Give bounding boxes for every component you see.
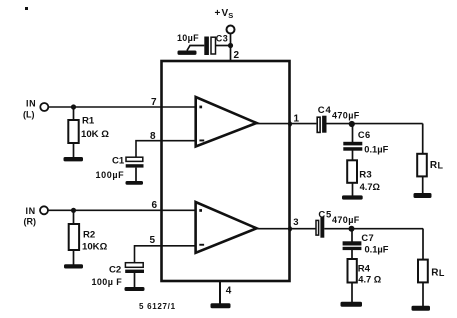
wire C4 to RL (top rail) [327, 123, 423, 125]
wire C1 to ground [135, 168, 137, 182]
ground (RL bottom) [412, 306, 431, 311]
junction blob at pin 3 box edge [288, 226, 292, 231]
capacitor C1 [96, 156, 144, 180]
svg-text:IN: IN [26, 99, 36, 109]
capacitor C4 [317, 105, 360, 133]
ground (C3) [178, 51, 197, 55]
capacitor C2 [92, 263, 145, 288]
svg-text:5: 5 [150, 235, 156, 246]
node junction C6 [349, 121, 355, 127]
ground (R2) [64, 264, 83, 268]
svg-text:10K Ω: 10K Ω [81, 129, 109, 140]
op-amp A2 [196, 202, 257, 253]
svg-text:R2: R2 [83, 229, 95, 240]
wire pin 4 to ground [219, 282, 221, 305]
op-amp A1 [196, 97, 257, 147]
svg-text:R3: R3 [359, 170, 372, 181]
svg-text:C7: C7 [361, 233, 374, 243]
wire +Vs to pin 2 [230, 34, 232, 62]
ground (RL top) [414, 193, 432, 198]
ground (R3) [342, 195, 363, 199]
wire C5 to RL (bottom rail) [324, 228, 423, 230]
node junction at pin 2 [228, 43, 233, 48]
ground (C1) [126, 181, 144, 185]
capacitor C3 [177, 33, 228, 55]
wire output pin 1 to C4 [256, 123, 316, 125]
svg-text:100µ F: 100µ F [92, 277, 123, 287]
svg-text:4.7Ω: 4.7Ω [360, 182, 381, 192]
wire IN(R) to pin 6 [48, 209, 203, 211]
wire pin 5 to C2 [135, 246, 204, 263]
wire C3 to junction [216, 45, 231, 47]
capacitor C7 [343, 233, 389, 255]
svg-text:4: 4 [226, 285, 232, 296]
svg-text:IN: IN [26, 206, 36, 216]
ground (C2) [125, 287, 145, 291]
svg-text:0.1µF: 0.1µF [365, 244, 389, 254]
svg-text:3: 3 [293, 217, 298, 228]
ground (R4) [341, 302, 363, 307]
svg-text:10µF: 10µF [177, 33, 199, 43]
ground (R1) [64, 157, 84, 161]
svg-text:RL: RL [431, 268, 445, 279]
svg-text:470µF: 470µF [332, 111, 360, 121]
wire C2 to ground [134, 273, 136, 288]
node junction C7 [349, 226, 355, 232]
node junction at R1 [71, 104, 76, 109]
load resistor RL (top) [417, 124, 443, 194]
svg-text:6: 6 [152, 200, 158, 211]
wire pin 8 to C1 [136, 141, 203, 158]
svg-text:C5: C5 [318, 209, 332, 220]
svg-text:(R): (R) [24, 217, 37, 227]
svg-text:C1: C1 [112, 156, 125, 167]
wire junction to C7 [351, 229, 353, 242]
capacitor C5 [316, 209, 360, 237]
svg-text:2: 2 [234, 50, 240, 61]
op-amp IC U1 outline [162, 61, 290, 281]
svg-text:7: 7 [151, 97, 157, 108]
svg-text:10KΩ: 10KΩ [82, 242, 108, 253]
resistor R1 [68, 107, 109, 158]
wire IN(L) to pin 7 [48, 106, 203, 108]
input terminal IN (L) [23, 99, 48, 120]
junction blob at pin 1 box edge [288, 121, 292, 126]
svg-text:100µF: 100µF [96, 170, 125, 180]
svg-text:C6: C6 [358, 130, 371, 140]
node junction at R2 [71, 208, 76, 213]
svg-text:C3: C3 [216, 34, 229, 44]
wire output pin 3 to C5 [256, 228, 316, 230]
wire junction to C6 [352, 124, 354, 143]
svg-text:470µF: 470µF [332, 215, 360, 225]
+Vs supply terminal [215, 8, 235, 34]
svg-text:R1: R1 [82, 116, 95, 127]
resistor R3 [347, 150, 380, 196]
wire C3 to ground [187, 46, 204, 51]
ground (pin 4) [211, 303, 231, 308]
svg-text:4.7 Ω: 4.7 Ω [358, 274, 382, 284]
load resistor RL (bottom) [418, 229, 445, 307]
svg-text:0.1µF: 0.1µF [364, 144, 388, 154]
input terminal IN (R) [24, 206, 49, 227]
svg-text:1: 1 [294, 114, 300, 125]
svg-text:C4: C4 [318, 105, 332, 116]
svg-text:R4: R4 [358, 264, 371, 275]
capacitor C6 [343, 130, 388, 155]
svg-text:RL: RL [430, 160, 444, 171]
resistor R4 [348, 250, 382, 302]
svg-text:5 6127/1: 5 6127/1 [139, 302, 176, 311]
svg-text:C2: C2 [109, 265, 121, 276]
resistor R2 [69, 210, 108, 265]
svg-text:(L): (L) [23, 110, 35, 120]
